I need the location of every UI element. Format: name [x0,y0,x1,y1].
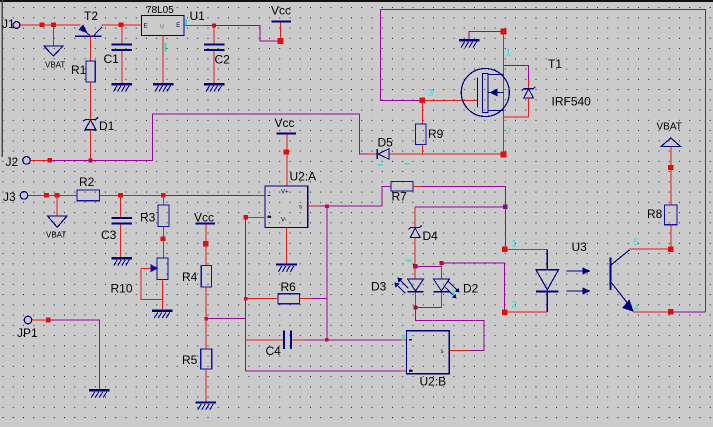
wire R1 to D1 [90,82,92,119]
svg-text:V+: V+ [281,190,289,196]
wire red stub U2B minus [400,339,408,341]
node junction U2A plus [243,215,248,220]
ground below JP1 [89,389,110,397]
wire gate loop rectangle [381,10,706,312]
svg-text:D1: D1 [99,119,115,133]
resistor R6 [278,280,300,304]
svg-text:R7: R7 [392,190,408,204]
wire R6 left lead [246,298,278,300]
wire D1 to J2 net [90,130,92,161]
node junction Vcc3 stem [203,241,208,246]
power Vcc symbol 2 [275,116,297,186]
connector JP1 [17,316,38,340]
svg-text:J2: J2 [6,155,19,169]
wire U3 pin2 cathode [505,311,548,313]
svg-text:IRF540: IRF540 [552,95,592,109]
node junction U3 pin1 [502,247,507,252]
wire R10 wiper loop [141,268,163,299]
resistor R1 [71,61,95,82]
svg-text:E: E [176,23,180,29]
ground below R5 [196,402,217,410]
svg-text:T2: T2 [84,9,98,23]
potentiometer R10 [111,258,169,296]
svg-text:D3: D3 [371,280,387,294]
diode D4 zener [409,225,439,243]
wire U3 pin1 anode [505,248,548,250]
opamp U2:B [407,331,450,389]
svg-text:4: 4 [634,303,639,314]
wire D3 top lead [414,266,416,278]
node junction Vcc2 stem [284,149,289,154]
ground below C2 [204,83,225,91]
wire U2B output loop [415,307,483,350]
node junction VBAT tap [51,23,56,28]
svg-text:U3: U3 [572,240,588,254]
svg-text:5: 5 [634,237,639,248]
svg-text:R3: R3 [140,211,156,225]
wire R6 right to output net [311,298,327,300]
wire J2 net long run [52,114,369,161]
wire R6 right red lead [300,298,312,300]
wire R9 top lead [421,100,423,124]
diode T1 body zener [522,87,536,98]
wire U3 pin4 emitter [634,311,671,313]
resistor R8 [647,205,677,225]
wire body diode top red [528,80,530,89]
ground below U2A [276,263,297,271]
node junction source row [500,151,506,157]
wire output net vertical [326,206,328,340]
wire C4 to U2B minus [305,339,400,341]
wire VBAT1 stem [53,25,55,46]
svg-text:VBAT: VBAT [45,61,65,70]
node junction R8 top [668,165,673,170]
connector J1 [2,17,20,31]
diode D5 [377,136,393,160]
wire C3 top lead [120,195,122,217]
wire D3 bottom lead [414,293,416,308]
connector J2 [6,155,31,169]
node junction D4 D3 [413,264,417,268]
wire D4 top run [415,206,505,208]
node junction U3 pin2 [502,309,507,314]
node pin square JP1 [46,318,51,323]
resistor R3 [140,205,169,227]
capacitor C4 [266,330,293,358]
svg-text:U2:B: U2:B [420,375,447,389]
svg-text:s: s [441,349,444,355]
node junction R3 tap [161,193,166,198]
capacitor C3 [101,217,132,242]
wire R7 right to LED anode [413,186,505,249]
wire D4 to D2 top [415,263,504,312]
pin marker cyan D5 [378,164,383,166]
power VBAT symbol 2 [46,216,67,240]
svg-text:R4: R4 [182,270,198,284]
pin marker cyan U2B [403,335,405,341]
wire D5 to source row [389,153,501,155]
wire C1 top lead [121,25,123,44]
svg-text:M: M [160,25,165,31]
svg-text:R9: R9 [428,127,444,141]
wire U1 output red [184,24,204,26]
node junction on J1 wire [40,23,45,28]
wire ground to drain [469,32,503,40]
wire R4 R5 to ref vertical [206,318,245,320]
wire J1 to T2 emitter [20,24,81,26]
svg-text:78L05: 78L05 [146,5,174,16]
wire R2 right lead [100,194,121,196]
wire R8 bottom lead [670,225,672,250]
node junction drain [500,29,506,35]
wire body diode loop bottom [503,98,528,117]
pin marker cyan D4 [407,260,412,262]
resistor R5 [182,349,212,369]
wire emitter to right edge [671,311,706,313]
svg-text:R8: R8 [647,207,663,221]
svg-text:J3: J3 [3,190,16,204]
power Vcc symbol 1 [271,4,291,40]
resistor R4 [182,266,212,288]
wire D2 bottom lead [440,293,442,308]
resistor R2 [77,175,100,201]
wire U2B output red stub [449,350,470,352]
svg-text:Vcc: Vcc [275,116,295,130]
power VBAT symbol 3 [657,122,682,147]
svg-text:1: 1 [512,239,517,250]
wire C2 bottom lead [213,51,215,83]
wire U2A plus stub [248,216,265,218]
wire U1 gnd pin [162,36,164,84]
svg-text:J1: J1 [2,17,15,31]
pin marker cyan U1 gnd [165,43,167,52]
node tick R6 left [244,297,248,301]
node junction gate [420,98,425,103]
wire J3 to R2 [46,194,77,196]
node junction Vcc1 [278,38,284,44]
ground below C1 [111,83,132,91]
wire D5 left lead [368,153,377,155]
mosfet T1 [461,57,591,117]
node junction C2 tap [212,23,216,27]
wire R10 bottom lead [162,280,164,310]
svg-text:s: s [299,205,302,211]
wire D2 top lead [440,263,442,279]
svg-text:C2: C2 [215,53,231,67]
ground below C3 [112,257,133,265]
wire D4 bottom lead [414,238,416,267]
connector J3 [3,190,28,204]
transistor T2 [75,9,102,36]
svg-text:V-: V- [281,218,287,224]
svg-text:3: 3 [428,88,433,99]
wire ref net vertical [245,217,247,371]
wire C4 left lead [246,339,284,341]
wire R3 top lead [162,195,164,205]
pin marker cyan R9 bottom [405,163,410,165]
ground below U1 [153,83,174,91]
wire J3 net to U2A minus [122,194,163,196]
wire VBAT3 to R8 [670,147,672,206]
node junction D2 top [439,261,443,265]
node tick R4 R5 [204,317,208,321]
svg-text:VBAT: VBAT [657,122,682,133]
wire U2A Vminus lead [286,228,288,264]
wire ref net to U2B plus [246,370,400,372]
svg-text:R2: R2 [79,175,95,189]
node pin square J3 [44,193,49,198]
wire U2A output red stub [308,205,319,207]
wire R9 bottom lead [421,145,423,155]
wire U3 pin5 collector [630,248,671,250]
wire red stub U2A minus [251,194,265,196]
led D3 [371,278,424,294]
wire U1 output to Vcc [204,25,281,41]
opamp U2:A [265,170,316,228]
wire R3 to R10 [162,227,164,259]
wire R7 right red stub [413,185,422,187]
svg-text:Vcc: Vcc [271,4,291,18]
wire JP1 red stub [32,319,47,321]
pin marker cyan U1 out [185,19,187,26]
node tick C4 output net [325,338,329,342]
resistor R7 [391,182,413,204]
wire drain vertical [502,32,504,154]
node junction D3 bottom [413,305,417,309]
pin marker cyan D2 [453,291,455,296]
node junction R3 R10 [161,237,166,242]
svg-text:U1: U1 [190,9,206,23]
wire J2 red stub [31,159,50,161]
wire red stub U2B plus [400,370,408,372]
wire C3 bottom lead [120,225,122,258]
svg-text:C1: C1 [104,52,120,66]
wire T2 base to R1 [90,37,92,62]
ground above T1 [459,39,480,47]
optocoupler U3 [536,240,633,312]
capacitor C1 [104,43,133,65]
wire R5 bottom lead [205,369,207,402]
wire T2 collector to U1 [102,24,142,26]
wire JP1 to ground [50,320,99,389]
wire R4 bottom lead [205,287,207,319]
svg-text:R5: R5 [182,353,198,367]
ground below R10 [152,310,173,318]
svg-text:Vcc: Vcc [194,210,214,224]
svg-text:2: 2 [506,126,511,137]
svg-text:R1: R1 [71,63,87,77]
regulator U1 78L05 [142,5,206,36]
node junction C1 tap [119,23,124,28]
power Vcc symbol 3 [194,210,215,265]
node pin square J2 [47,158,52,163]
svg-text:C4: C4 [266,344,282,358]
wire C1 bottom lead [121,51,123,83]
svg-text:U2:A: U2:A [290,170,317,184]
wire body diode loop top [503,65,528,80]
wire VBAT2 stem [56,195,58,216]
wire C2 top lead [213,25,215,43]
wire gate red [422,99,477,101]
svg-text:JP1: JP1 [17,326,38,340]
wire D3 D2 bottom join [415,306,441,308]
svg-text:E: E [144,24,148,30]
led D2 [433,279,478,299]
svg-text:D4: D4 [423,229,439,243]
node junction purple D4 net [503,205,507,209]
svg-text:T1: T1 [548,57,562,71]
wire R5 top lead [205,319,207,349]
node junction pin4 [668,309,673,314]
svg-text:C3: C3 [101,228,117,242]
node junction R8 bottom [668,247,673,252]
svg-text:D5: D5 [378,136,394,150]
wire C4 right lead [292,339,305,341]
resistor R9 [415,124,443,145]
wire U2A output to R7 corner [319,186,391,206]
svg-text:2: 2 [512,300,517,311]
node junction C3 tap [118,193,123,198]
svg-text:R10: R10 [111,282,133,296]
svg-text:VBAT: VBAT [46,231,66,240]
svg-text:1: 1 [506,48,511,59]
node tick output branch [325,204,329,208]
node junction D1 bottom [89,158,93,162]
wire D4 top lead [414,207,416,227]
svg-text:R6: R6 [281,280,297,294]
node junction VBAT2 tap [55,193,60,198]
diode D1 zener [83,117,115,133]
wire J3 stub [28,194,46,196]
power VBAT symbol 1 [44,46,66,70]
capacitor C2 [204,43,230,66]
svg-text:D2: D2 [463,282,479,296]
